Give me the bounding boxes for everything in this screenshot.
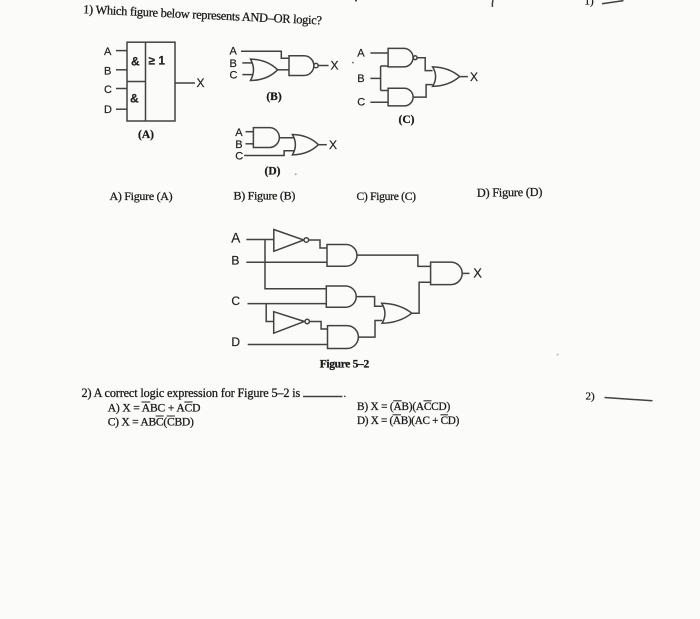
svg-text:B) Figure (B): B) Figure (B): [234, 188, 296, 202]
svg-text:&: &: [130, 92, 139, 106]
svg-text:X: X: [329, 138, 337, 152]
svg-text:C: C: [230, 70, 238, 82]
svg-text:A: A: [235, 127, 243, 139]
svg-text:X: X: [473, 266, 482, 281]
svg-text:D) X = (AB)(AC + CD): D) X = (AB)(AC + CD): [357, 415, 460, 427]
svg-text:&: &: [131, 55, 140, 69]
svg-text:C: C: [231, 294, 240, 308]
svg-text:(B): (B): [266, 91, 282, 103]
svg-text:.: .: [344, 389, 347, 400]
svg-text:2) A correct logic expression: 2) A correct logic expression for Figure…: [82, 386, 301, 400]
svg-text:X: X: [197, 76, 205, 90]
svg-text:Figure 5–2: Figure 5–2: [320, 359, 370, 371]
svg-text:D: D: [104, 104, 112, 116]
svg-text:B: B: [235, 139, 242, 151]
svg-text:X: X: [331, 59, 339, 73]
svg-text:B) X = (AB)(ACCD): B) X = (AB)(ACCD): [357, 401, 450, 413]
svg-text:1): 1): [585, 0, 595, 8]
svg-text:C: C: [357, 97, 365, 109]
svg-text:(C): (C): [399, 114, 415, 126]
svg-text:2): 2): [586, 390, 596, 402]
svg-text:A: A: [357, 47, 365, 59]
svg-text:A) Figure (A): A) Figure (A): [110, 189, 173, 203]
svg-text:1) Which figure below represen: 1) Which figure below represents AND–OR …: [83, 2, 322, 27]
svg-text:D: D: [231, 335, 240, 349]
svg-text:X: X: [470, 70, 478, 84]
svg-text:A: A: [231, 230, 240, 245]
svg-text:≥ 1: ≥ 1: [149, 54, 166, 68]
svg-text:D) Figure (D): D) Figure (D): [477, 185, 543, 200]
svg-text:B: B: [104, 65, 111, 77]
svg-text:C) Figure (C): C) Figure (C): [357, 190, 417, 203]
svg-text:A: A: [230, 45, 238, 57]
svg-text:(D): (D): [265, 165, 281, 177]
svg-text:C) X = ABC(CBD): C) X = ABC(CBD): [108, 416, 194, 429]
svg-text:B: B: [230, 58, 237, 70]
svg-text:A) X = ABC + ACD: A) X = ABC + ACD: [108, 402, 201, 415]
svg-text:B: B: [357, 73, 364, 85]
svg-text:B: B: [231, 254, 239, 268]
svg-text:C: C: [235, 150, 243, 162]
svg-text:(A): (A): [138, 129, 154, 141]
svg-text:A: A: [104, 46, 112, 58]
svg-text:C: C: [104, 84, 112, 96]
